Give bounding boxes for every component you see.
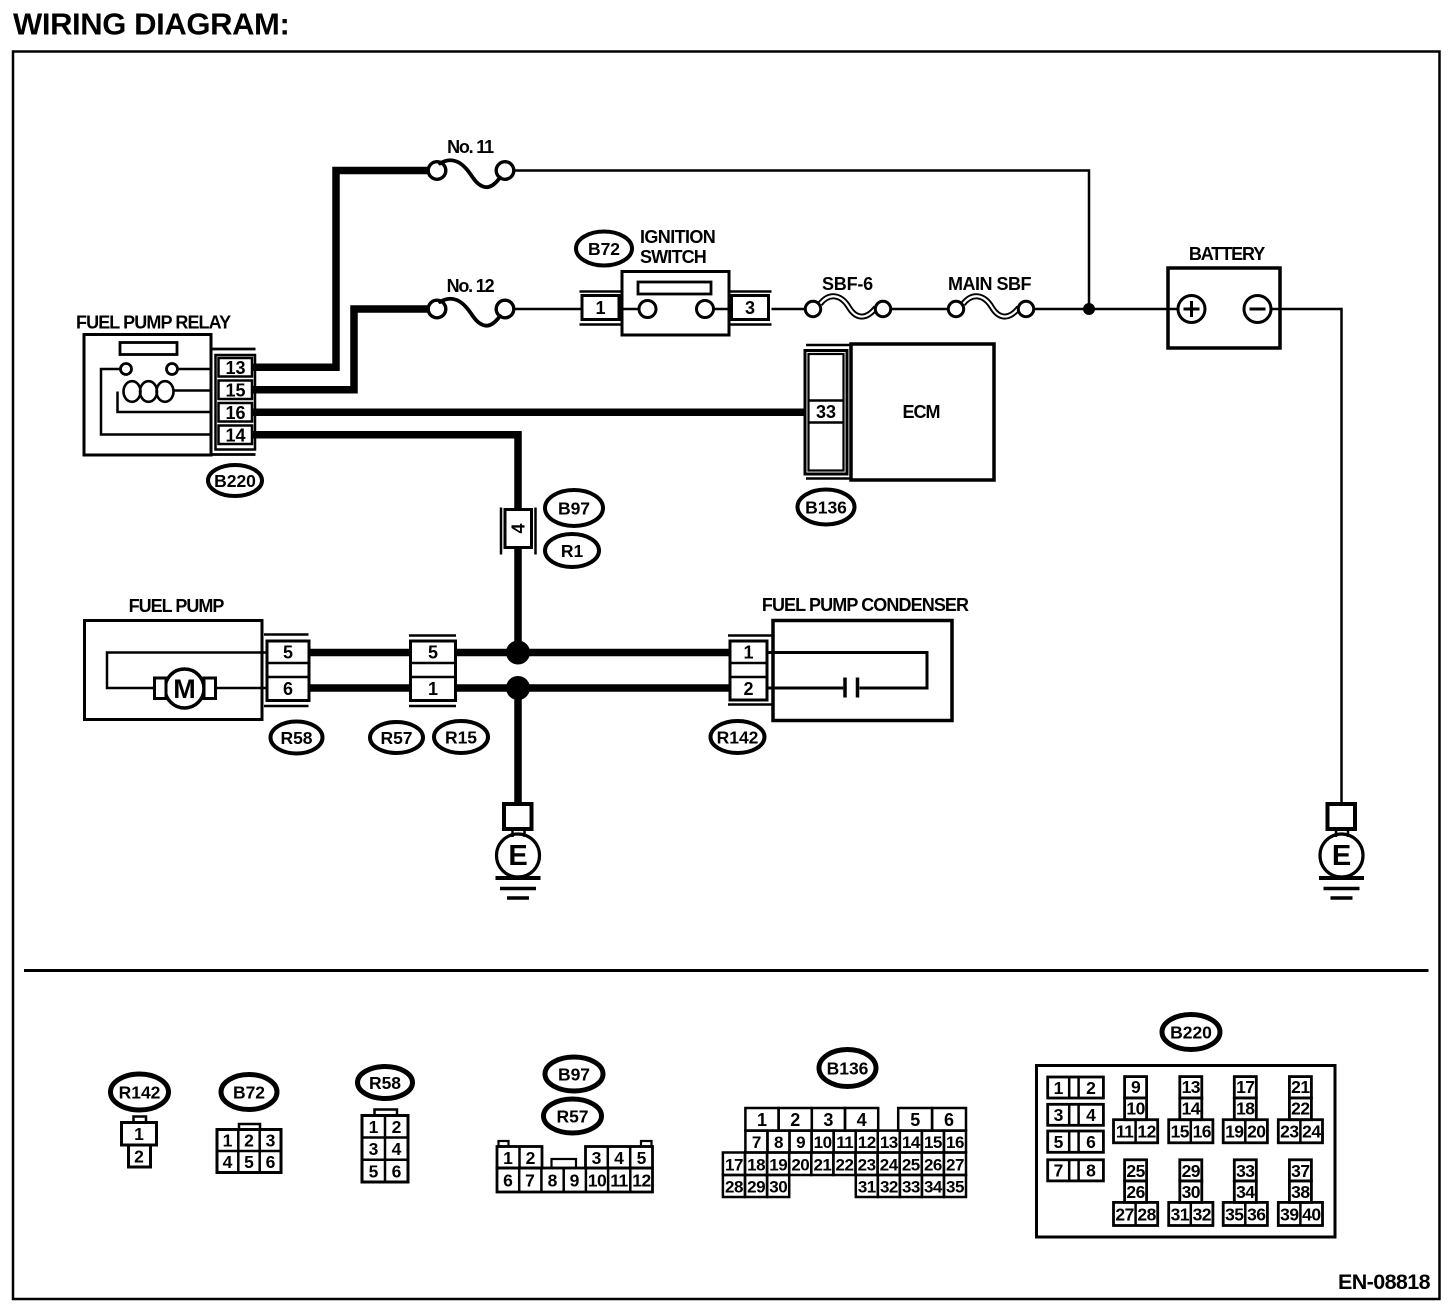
svg-text:B136: B136 — [827, 1058, 869, 1078]
svg-text:30: 30 — [769, 1177, 787, 1196]
svg-text:7: 7 — [752, 1133, 761, 1152]
B220 pin pair 1-2 — [1048, 1077, 1104, 1098]
svg-text:2: 2 — [790, 1110, 800, 1130]
connector B72 oval — [576, 232, 632, 266]
ignition switch U1 — [622, 272, 729, 336]
fusible link MAIN SBF — [948, 296, 1033, 316]
svg-text:10: 10 — [814, 1133, 832, 1152]
svg-text:4: 4 — [509, 523, 529, 533]
svg-text:1: 1 — [743, 643, 753, 663]
svg-text:6: 6 — [392, 1161, 402, 1181]
svg-text:12: 12 — [1137, 1122, 1156, 1142]
svg-text:31: 31 — [858, 1177, 876, 1196]
svg-text:37: 37 — [1291, 1161, 1309, 1181]
svg-text:7: 7 — [1054, 1161, 1064, 1181]
svg-text:E: E — [1332, 840, 1351, 872]
svg-text:33: 33 — [816, 402, 836, 422]
wire MAIN SBF to battery — [1034, 308, 1178, 311]
svg-text:3: 3 — [1054, 1105, 1064, 1125]
wire pin15 to fuse No.12 — [252, 309, 429, 390]
svg-text:4: 4 — [1086, 1105, 1096, 1125]
motor M — [155, 669, 216, 708]
svg-text:27: 27 — [946, 1155, 964, 1174]
svg-text:12: 12 — [858, 1133, 876, 1152]
capacitor C1 — [767, 678, 858, 698]
svg-text:2: 2 — [392, 1117, 402, 1137]
svg-text:32: 32 — [1193, 1204, 1212, 1224]
svg-text:14: 14 — [902, 1133, 921, 1152]
ground E left — [496, 804, 541, 898]
svg-text:B220: B220 — [1170, 1022, 1212, 1042]
svg-text:8: 8 — [548, 1171, 558, 1191]
svg-text:19: 19 — [769, 1155, 787, 1174]
svg-text:26: 26 — [924, 1155, 942, 1174]
ignition pin 1 — [580, 292, 623, 325]
wire R58 pin5 to R57 pin5 — [309, 649, 411, 657]
wire battery minus to right ground — [1271, 309, 1342, 804]
svg-text:40: 40 — [1302, 1204, 1321, 1224]
svg-text:R58: R58 — [280, 728, 312, 748]
svg-text:21: 21 — [1291, 1077, 1310, 1097]
svg-text:17: 17 — [1236, 1077, 1254, 1097]
pinout R142 connector — [122, 1117, 157, 1168]
connector R15 oval — [434, 721, 488, 753]
svg-text:1: 1 — [595, 298, 605, 318]
svg-text:6: 6 — [266, 1152, 276, 1172]
connector R57 oval — [370, 722, 423, 753]
svg-text:1: 1 — [757, 1110, 767, 1130]
svg-text:33: 33 — [902, 1177, 920, 1196]
connector B136 oval — [798, 490, 855, 525]
svg-text:3: 3 — [369, 1139, 379, 1159]
B220 pin group 33-36 — [1223, 1160, 1267, 1226]
svg-text:30: 30 — [1182, 1182, 1201, 1202]
svg-text:11: 11 — [836, 1133, 853, 1152]
svg-text:14: 14 — [225, 425, 245, 445]
svg-text:R57: R57 — [556, 1106, 588, 1126]
svg-text:8: 8 — [1086, 1161, 1096, 1181]
svg-text:5: 5 — [283, 643, 293, 663]
fusible link SBF-6 — [805, 296, 890, 316]
wire connector 4 to junction A — [514, 548, 522, 646]
B220 pin pair 3-4 — [1048, 1104, 1104, 1125]
svg-text:36: 36 — [1247, 1204, 1266, 1224]
svg-text:5: 5 — [428, 643, 438, 663]
pinout B97 oval — [545, 1057, 603, 1091]
battery — [1168, 244, 1280, 348]
svg-text:EN-08818: EN-08818 — [1338, 1270, 1431, 1294]
svg-text:16: 16 — [225, 403, 245, 423]
svg-text:4: 4 — [392, 1139, 402, 1159]
fuse No.11 — [428, 160, 514, 187]
wire pin14 to connector 4 — [252, 435, 518, 510]
ground E right — [1319, 804, 1364, 898]
svg-text:29: 29 — [747, 1177, 765, 1196]
svg-text:6: 6 — [944, 1110, 954, 1130]
svg-text:1: 1 — [369, 1117, 379, 1137]
B220 pin group 17-20 — [1223, 1077, 1267, 1143]
svg-text:5: 5 — [910, 1110, 920, 1130]
svg-text:10: 10 — [588, 1171, 607, 1191]
svg-text:32: 32 — [880, 1177, 898, 1196]
inline connector pin 4 — [501, 508, 536, 555]
svg-text:13: 13 — [1182, 1077, 1201, 1097]
pinout B72 oval — [221, 1075, 277, 1110]
svg-text:B136: B136 — [805, 498, 847, 518]
wire pin16 to ECM pin 33 — [252, 409, 805, 417]
svg-text:1: 1 — [503, 1148, 513, 1168]
svg-text:6: 6 — [503, 1171, 513, 1191]
svg-text:22: 22 — [836, 1155, 854, 1174]
pinout B72 connector — [217, 1124, 281, 1173]
svg-text:26: 26 — [1126, 1182, 1145, 1202]
svg-text:3: 3 — [745, 298, 755, 318]
svg-text:27: 27 — [1115, 1204, 1133, 1224]
wire junction B to left ground — [514, 688, 522, 804]
connector R1 oval — [545, 534, 599, 567]
fuse No.12 — [428, 299, 514, 326]
wire pin13 to fuse No.11 — [252, 171, 429, 368]
svg-text:34: 34 — [924, 1177, 943, 1196]
connector B97 oval — [545, 490, 603, 526]
svg-text:16: 16 — [1193, 1122, 1212, 1142]
svg-text:28: 28 — [725, 1177, 743, 1196]
svg-text:2: 2 — [743, 679, 753, 699]
svg-text:11: 11 — [1116, 1122, 1134, 1142]
svg-text:FUEL PUMP: FUEL PUMP — [129, 596, 225, 616]
svg-text:6: 6 — [283, 679, 293, 699]
svg-text:8: 8 — [774, 1133, 783, 1152]
svg-text:17: 17 — [725, 1155, 743, 1174]
svg-text:FUEL PUMP RELAY: FUEL PUMP RELAY — [76, 313, 231, 333]
svg-text:4: 4 — [223, 1152, 233, 1172]
condenser internal wire loop — [767, 653, 927, 689]
relay coil — [118, 381, 212, 412]
B220 pin group 37-40 — [1278, 1160, 1322, 1226]
svg-text:No. 12: No. 12 — [447, 276, 495, 296]
wire R58 pin6 to R57 pin1 — [309, 684, 411, 692]
svg-text:31: 31 — [1171, 1204, 1190, 1224]
svg-text:WIRING DIAGRAM:: WIRING DIAGRAM: — [13, 7, 289, 42]
pinout R142 oval — [111, 1074, 169, 1110]
svg-text:E: E — [508, 840, 527, 872]
svg-text:15: 15 — [225, 380, 245, 400]
pinout B136 oval — [819, 1050, 876, 1087]
svg-text:23: 23 — [858, 1155, 876, 1174]
relay pin numbers — [225, 358, 245, 446]
svg-text:20: 20 — [791, 1155, 809, 1174]
svg-text:11: 11 — [610, 1171, 628, 1191]
svg-text:B220: B220 — [214, 471, 256, 491]
svg-text:20: 20 — [1247, 1122, 1266, 1142]
connector R58 inline — [264, 635, 309, 707]
svg-text:ECM: ECM — [903, 402, 940, 422]
svg-text:B72: B72 — [233, 1082, 265, 1102]
connector R58 oval — [271, 722, 323, 754]
relay connector column B220 — [212, 349, 256, 455]
svg-text:15: 15 — [1171, 1122, 1190, 1142]
pinout R58 connector — [362, 1110, 408, 1183]
B220 pin group 13-16 — [1169, 1077, 1213, 1143]
svg-text:R57: R57 — [380, 728, 412, 748]
ignition pin 3 — [729, 292, 772, 325]
separator line — [24, 969, 1429, 972]
svg-text:3: 3 — [592, 1148, 602, 1168]
svg-text:4: 4 — [614, 1148, 624, 1168]
svg-text:9: 9 — [796, 1133, 805, 1152]
svg-text:21: 21 — [813, 1155, 831, 1174]
pinout R58 oval — [358, 1067, 413, 1099]
svg-text:SWITCH: SWITCH — [640, 247, 706, 267]
wire fuse No.12 to ignition pin 1 — [514, 308, 583, 311]
svg-text:5: 5 — [637, 1148, 647, 1168]
svg-text:23: 23 — [1280, 1122, 1299, 1142]
svg-text:6: 6 — [1086, 1132, 1096, 1152]
wire R57 pin5 to R142 pin1 — [456, 649, 732, 657]
svg-text:2: 2 — [244, 1131, 254, 1151]
svg-text:15: 15 — [924, 1133, 942, 1152]
svg-text:2: 2 — [526, 1148, 536, 1168]
svg-text:5: 5 — [1054, 1132, 1064, 1152]
svg-text:9: 9 — [570, 1171, 580, 1191]
svg-text:24: 24 — [880, 1155, 899, 1174]
svg-text:18: 18 — [747, 1155, 765, 1174]
wire SBF-6 to MAIN SBF — [891, 308, 949, 311]
node battery feed junction — [1083, 303, 1095, 315]
svg-text:R142: R142 — [119, 1083, 161, 1103]
label IGNITION SWITCH — [640, 227, 715, 267]
svg-text:18: 18 — [1236, 1098, 1255, 1118]
svg-text:R1: R1 — [561, 541, 584, 561]
svg-text:MAIN SBF: MAIN SBF — [948, 274, 1031, 294]
pinout B220 oval — [1162, 1015, 1220, 1050]
svg-text:1: 1 — [223, 1131, 233, 1151]
svg-text:24: 24 — [1302, 1122, 1321, 1142]
svg-text:2: 2 — [1086, 1078, 1096, 1098]
svg-text:1: 1 — [134, 1124, 144, 1144]
pinout R57 oval — [544, 1099, 602, 1133]
svg-text:FUEL PUMP CONDENSER: FUEL PUMP CONDENSER — [762, 595, 969, 615]
svg-text:34: 34 — [1236, 1182, 1255, 1202]
svg-text:B72: B72 — [588, 239, 620, 259]
svg-text:R15: R15 — [445, 727, 477, 747]
wire ignition pin 3 to SBF-6 — [772, 308, 806, 311]
svg-text:4: 4 — [857, 1110, 867, 1130]
svg-text:38: 38 — [1291, 1182, 1310, 1202]
ECM U2 — [805, 344, 994, 480]
svg-text:IGNITION: IGNITION — [640, 227, 715, 247]
node junction A — [506, 641, 530, 665]
svg-text:7: 7 — [525, 1171, 535, 1191]
svg-text:BATTERY: BATTERY — [1189, 244, 1265, 264]
svg-text:19: 19 — [1225, 1122, 1244, 1142]
svg-text:22: 22 — [1291, 1098, 1310, 1118]
svg-text:3: 3 — [823, 1110, 833, 1130]
svg-text:R58: R58 — [369, 1073, 401, 1093]
svg-text:14: 14 — [1182, 1098, 1201, 1118]
pinout B97/R57 connector — [497, 1141, 653, 1192]
svg-text:1: 1 — [428, 679, 438, 699]
connector R142 inline — [728, 636, 773, 705]
B220 pin group 29-32 — [1169, 1160, 1213, 1226]
svg-text:2: 2 — [134, 1146, 144, 1166]
B220 pin group 21-24 — [1278, 1077, 1322, 1143]
pinout B220 connector box — [1037, 1066, 1336, 1238]
svg-text:29: 29 — [1182, 1161, 1201, 1181]
svg-text:33: 33 — [1236, 1161, 1255, 1181]
svg-text:39: 39 — [1280, 1204, 1299, 1224]
svg-text:12: 12 — [632, 1171, 651, 1191]
svg-text:16: 16 — [946, 1133, 964, 1152]
connector R57 inline — [409, 636, 456, 707]
svg-text:25: 25 — [1126, 1161, 1145, 1181]
svg-text:B97: B97 — [558, 498, 590, 518]
svg-text:SBF-6: SBF-6 — [822, 274, 873, 294]
svg-text:25: 25 — [902, 1155, 920, 1174]
wire fuse No.11 to battery node — [514, 171, 1090, 310]
node junction B — [506, 676, 530, 700]
B220 pin group 25-28 — [1114, 1160, 1158, 1226]
wire R57 pin1 to R142 pin2 — [456, 684, 732, 692]
svg-text:3: 3 — [266, 1131, 276, 1151]
svg-text:13: 13 — [225, 358, 245, 378]
svg-text:9: 9 — [1131, 1077, 1141, 1097]
connector B220 oval — [208, 465, 262, 496]
svg-text:R142: R142 — [717, 727, 759, 747]
svg-text:5: 5 — [369, 1161, 379, 1181]
fuel pump internal wires — [107, 653, 267, 689]
connector R142 oval — [711, 721, 765, 753]
B220 pin pair 7-8 — [1048, 1160, 1104, 1181]
svg-text:35: 35 — [946, 1177, 964, 1196]
svg-text:B97: B97 — [558, 1064, 590, 1084]
svg-text:35: 35 — [1225, 1204, 1244, 1224]
B220 pin pair 5-6 — [1048, 1131, 1104, 1152]
svg-text:No. 11: No. 11 — [447, 137, 494, 157]
svg-text:28: 28 — [1137, 1204, 1156, 1224]
B220 pin group 9-12 — [1114, 1077, 1158, 1143]
svg-text:13: 13 — [880, 1133, 898, 1152]
svg-text:M: M — [173, 674, 196, 704]
svg-text:1: 1 — [1054, 1078, 1064, 1098]
svg-text:5: 5 — [244, 1152, 254, 1172]
svg-text:10: 10 — [1126, 1098, 1145, 1118]
pinout B136 connector grid — [723, 1108, 966, 1197]
